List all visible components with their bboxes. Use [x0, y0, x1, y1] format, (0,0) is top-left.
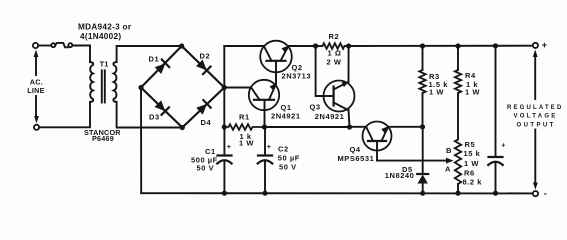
- label R1: [239, 113, 254, 148]
- fuse F1: [51, 43, 72, 47]
- wire bridge arm D1: [141, 46, 182, 88]
- wire bottom AC to transformer primary: [39, 102, 90, 127]
- svg-text:+: +: [227, 142, 231, 151]
- label Q4: [338, 145, 375, 163]
- node D5 ground: [420, 191, 425, 196]
- svg-text:1 W: 1 W: [465, 88, 480, 97]
- wire top rail to Q2: [224, 45, 264, 47]
- svg-text:R4: R4: [465, 71, 476, 80]
- svg-text:+: +: [267, 142, 271, 151]
- svg-text:15 k: 15 k: [464, 149, 481, 158]
- wire Q3 base from node: [316, 46, 324, 96]
- diode D2: [196, 59, 211, 74]
- node bridge bottom: [180, 125, 185, 130]
- svg-text:D1: D1: [149, 55, 160, 64]
- transformer T1 core: [101, 70, 103, 102]
- capacitor C2: [258, 127, 273, 193]
- ground bus wire: [141, 192, 533, 194]
- svg-text:-: -: [544, 189, 547, 199]
- label Q3: [310, 103, 345, 121]
- resistor R3: [419, 46, 425, 127]
- svg-text:50 µF: 50 µF: [278, 153, 300, 162]
- node Q1 base junction: [262, 124, 267, 129]
- label C2: [278, 145, 300, 172]
- AC input terminal bottom: [34, 125, 39, 130]
- AC input terminal top: [33, 43, 38, 48]
- svg-text:AC.: AC.: [30, 78, 43, 87]
- capacitor C1: [217, 127, 231, 193]
- node Q3 collector junction: [347, 124, 352, 129]
- label STANCOR P6469: [84, 128, 121, 143]
- svg-text:P6469: P6469: [92, 134, 114, 143]
- diode D1: [154, 59, 169, 74]
- wire bridge arm D2: [182, 46, 225, 88]
- label R4: [465, 71, 480, 97]
- wire Q3 emitter up: [348, 46, 350, 82]
- wire bridge arm D3: [141, 88, 182, 128]
- svg-text:LINE: LINE: [27, 86, 44, 95]
- wire Q4 base to pot wiper: [377, 160, 448, 162]
- svg-text:MPS6531: MPS6531: [338, 154, 375, 163]
- label R2: [327, 32, 342, 66]
- node rail R3: [420, 43, 425, 48]
- svg-text:2N3713: 2N3713: [282, 71, 312, 80]
- label Q1: [271, 103, 301, 120]
- label C1: [191, 147, 218, 173]
- wire node to Q4: [350, 126, 367, 128]
- svg-text:1N8240: 1N8240: [385, 171, 415, 180]
- output terminal minus: [533, 191, 538, 196]
- svg-text:2N4921: 2N4921: [315, 112, 345, 121]
- label D5: [385, 165, 415, 180]
- label regulated voltage output: [507, 105, 562, 128]
- resistor R6: [455, 161, 461, 194]
- svg-text:4(1N4002): 4(1N4002): [80, 32, 121, 41]
- transformer T1 secondary winding: [113, 62, 116, 102]
- label MDA942-3: [78, 22, 132, 41]
- node R2 right junction: [346, 43, 351, 48]
- svg-text:Q3: Q3: [310, 103, 321, 112]
- pot wiper arrow: [446, 158, 454, 164]
- wire bridge plus vertical: [223, 46, 225, 127]
- wire fuse to transformer primary: [72, 46, 90, 63]
- resistor R2: [316, 43, 349, 49]
- diode D3: [154, 100, 169, 115]
- wire bridge right to Q1 collector: [224, 87, 251, 89]
- wire secondary top to bridge: [117, 46, 182, 62]
- wire R1 node to Q3 node: [265, 126, 350, 128]
- node D5 R3 junction: [420, 124, 425, 129]
- svg-text:T1: T1: [100, 60, 109, 69]
- node C1 ground: [222, 191, 227, 196]
- svg-text:50 V: 50 V: [279, 163, 297, 172]
- wire Q4 emitter to node: [388, 126, 423, 128]
- node rail R4: [455, 43, 460, 48]
- svg-text:VOLTAGE: VOLTAGE: [514, 113, 556, 119]
- zener diode D5 1N8240: [417, 127, 428, 193]
- AC line double arrow: [34, 50, 39, 124]
- transformer T1 primary winding: [90, 62, 93, 102]
- diode D4: [196, 100, 211, 115]
- svg-text:D3: D3: [149, 113, 160, 122]
- capacitor C3 output: [488, 46, 503, 193]
- svg-text:D4: D4: [201, 118, 212, 127]
- svg-text:8.2 k: 8.2 k: [463, 178, 483, 187]
- svg-text:+: +: [501, 140, 505, 149]
- wire bridge minus to ground bus: [140, 88, 142, 194]
- potentiometer R5: [455, 140, 461, 161]
- svg-text:R5: R5: [465, 140, 476, 149]
- svg-text:50 V: 50 V: [197, 164, 215, 173]
- node R1 left junction: [222, 124, 227, 129]
- node C2 ground: [262, 191, 267, 196]
- wire terminal to fuse: [38, 45, 51, 47]
- svg-text:MDA942-3 or: MDA942-3 or: [78, 22, 132, 31]
- label R6: [463, 169, 483, 187]
- wire Q2 emitter to node: [288, 45, 315, 47]
- svg-text:D2: D2: [200, 52, 211, 61]
- svg-text:+: +: [542, 40, 547, 50]
- wire top rail right: [349, 45, 533, 47]
- svg-text:R1: R1: [239, 113, 250, 122]
- node C3 ground: [493, 191, 498, 196]
- node bridge left: [138, 85, 143, 90]
- svg-text:A: A: [445, 165, 451, 174]
- svg-text:B: B: [446, 146, 452, 155]
- label R3: [429, 72, 449, 97]
- output terminal plus: [533, 43, 538, 48]
- node bridge right: [222, 85, 227, 90]
- svg-text:1 W: 1 W: [464, 159, 479, 168]
- output voltage double arrow: [533, 50, 538, 190]
- svg-text:REGULATED: REGULATED: [507, 105, 562, 111]
- svg-text:1 W: 1 W: [429, 88, 444, 97]
- svg-text:1 W: 1 W: [239, 138, 254, 147]
- wire Q3 collector down: [349, 110, 350, 127]
- label Q2: [282, 63, 312, 81]
- resistor R1: [224, 124, 264, 130]
- svg-text:1 Ω: 1 Ω: [328, 48, 342, 57]
- svg-text:C2: C2: [278, 145, 289, 154]
- wire bridge arm D4: [182, 88, 224, 128]
- transistor Q1 2N4921: [249, 73, 279, 128]
- node R6 ground: [455, 191, 460, 196]
- svg-text:R6: R6: [464, 169, 475, 178]
- node bridge top: [179, 43, 184, 48]
- transistor Q3 2N4921: [324, 81, 355, 112]
- resistor R4: [455, 46, 461, 140]
- svg-text:2N4921: 2N4921: [271, 111, 301, 120]
- label AC LINE: [27, 78, 44, 96]
- node rail C3: [493, 43, 498, 48]
- wire secondary bottom to bridge: [117, 102, 183, 128]
- label R5: [464, 140, 481, 168]
- transistor Q4 MPS6531: [363, 122, 392, 161]
- node Q2 emitter junction: [313, 43, 318, 48]
- svg-text:Q4: Q4: [350, 145, 361, 154]
- transistor Q2 2N3713: [260, 41, 292, 81]
- svg-text:R2: R2: [329, 32, 340, 41]
- svg-text:2 W: 2 W: [327, 57, 342, 66]
